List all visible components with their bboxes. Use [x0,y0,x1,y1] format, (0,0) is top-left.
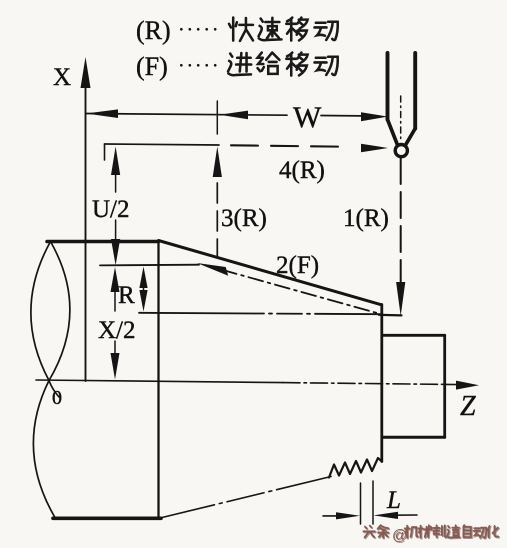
svg-text:W: W [293,101,322,134]
legend (F) feed label [136,52,220,81]
svg-text:Z: Z [460,391,476,422]
taper-end level line [139,313,380,314]
svg-text:·····: ····· [178,55,220,77]
X axis [81,57,91,381]
cut start segment [379,314,402,317]
4(R) rapid return line [105,144,389,160]
svg-text:@: @ [392,527,407,544]
workpiece taper edge [159,241,382,305]
shoulder face [380,305,383,462]
legend (R) rapid label [136,16,220,45]
svg-text:X: X [53,64,71,91]
svg-text:X/2: X/2 [98,317,136,344]
svg-text:3(R): 3(R) [221,205,267,232]
svg-text:U/2: U/2 [92,196,130,223]
workpiece top edge [47,240,159,244]
watermark 头条@机械制造自动化 [363,525,499,545]
W dimension line [86,109,388,121]
svg-text:R: R [118,282,135,309]
U/2 dimension line [111,147,120,266]
boss right edge [443,335,446,437]
Z axis [36,380,479,390]
tool tip circle [395,145,407,157]
left break curve lens-left [31,242,59,398]
legend text 进给移动 [228,53,338,76]
cut-end level line [100,264,199,267]
workpiece bottom edge [53,516,161,520]
1(R) plunge dashed line [396,158,405,316]
section line [157,242,159,519]
2(F) feed path [197,263,381,314]
R dimension line [139,267,147,312]
svg-text:(R): (R) [136,16,171,45]
svg-text:4(R): 4(R) [279,157,325,184]
svg-text:·····: ····· [178,19,220,41]
bottom taper phantom line [160,477,331,519]
boss top edge [382,334,445,337]
X/2 dimension line [111,267,120,380]
L dimension [323,481,417,524]
3(R) retract dashed line [213,101,222,258]
left break curve S [33,242,70,518]
thread zigzag [329,458,382,478]
svg-text:L: L [386,487,401,514]
tool holder [388,53,416,145]
svg-text:(F): (F) [136,52,168,81]
svg-text:1(R): 1(R) [343,205,389,232]
boss bottom edge [382,436,445,439]
legend text 快速移动 [229,18,338,41]
